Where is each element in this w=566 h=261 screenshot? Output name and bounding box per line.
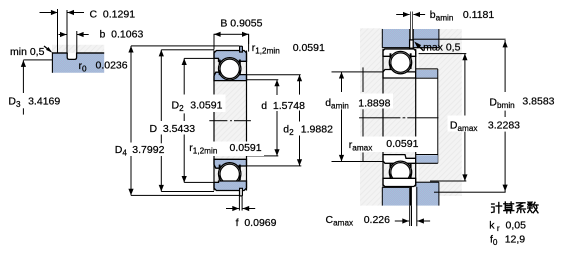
left view outer ring top half: [214, 51, 247, 62]
right view: housing ghost grey column right: [439, 29, 462, 196]
d2 label (white box): [282, 122, 336, 136]
svg-text:0.226: 0.226: [364, 214, 390, 226]
svg-text:3.8583: 3.8583: [522, 95, 554, 107]
d2 dimension line: [247, 74, 301, 75]
housing band top (blue) with snap ring slot: [382, 29, 439, 48]
D_amax label (white box): [448, 116, 522, 132]
C_amax dimension: [409, 186, 412, 205]
svg-text:0.0591: 0.0591: [230, 142, 262, 154]
detail view: housing ghost hatch strip: [52, 45, 104, 53]
D dimension line: [161, 49, 214, 50]
d_amin dimension: [332, 71, 384, 72]
svg-text:3.7992: 3.7992: [132, 144, 164, 156]
right view: grey ghost column at bearing: [383, 49, 416, 187]
left view inner ring bottom half: [214, 159, 247, 168]
right view: housing ghost grey arm top: [419, 54, 439, 69]
svg-text:C 0.1291: C 0.1291: [90, 9, 136, 21]
snap ring slot walls (top): [408, 29, 411, 40]
D3 dimension: ref line at groove bottom level: [23, 59, 52, 60]
housing band bottom right part (blue, raised): [416, 182, 439, 205]
B dimension: [214, 34, 215, 50]
D2 label: [170, 95, 226, 113]
svg-text:3.2283: 3.2283: [488, 120, 520, 132]
svg-text:max 0,5: max 0,5: [423, 41, 461, 53]
b_amin dimension: [409, 12, 412, 40]
dimension C line + arrows: [40, 12, 58, 13]
right view inner ring bottom (white): [383, 155, 416, 164]
left view bearing face edge lines: [213, 51, 214, 191]
svg-text:0.0591: 0.0591: [293, 42, 325, 54]
shaft shoulder block top (blue): [416, 70, 438, 78]
r12min top label: [248, 34, 249, 51]
groove slot walls: [67, 53, 76, 59]
left view ball bottom with raceway and cage: [219, 163, 241, 185]
D2 dimension line: [184, 58, 218, 59]
detail view: outer ring segment with snap ring groove (blue block): [52, 53, 104, 72]
r_amax label (white box): [347, 137, 419, 153]
svg-text:b 0.1063: b 0.1063: [100, 28, 144, 40]
right view: shaft ghost grey strip: [360, 28, 383, 205]
D_bmin dimension: [414, 39, 506, 40]
detail block left edge: [52, 52, 53, 73]
svg-text:0.0236: 0.0236: [96, 59, 128, 71]
svg-text:1.9882: 1.9882: [301, 124, 333, 136]
D4 label: [113, 143, 168, 157]
dimension C: extension lines: [57, 9, 58, 53]
left view: grey ghost column between bearing faces: [214, 51, 247, 191]
calculation factors heading (CJK glyphs drawn as paths): [492, 202, 538, 213]
f dimension: [239, 191, 240, 211]
svg-text:12,9: 12,9: [505, 234, 526, 246]
dimension b: extension line right wall: [76, 31, 77, 53]
svg-text:0.1181: 0.1181: [463, 9, 494, 21]
left view inner ring top half: [214, 72, 247, 80]
D4 dimension line: [131, 45, 240, 46]
d_amin label (white box): [324, 94, 393, 109]
svg-text:0.0591: 0.0591: [386, 138, 418, 150]
snap ring tab in housing (right view top): [410, 40, 414, 48]
dimension b line + arrows: [59, 34, 67, 35]
left view snap ring tab bottom: [240, 188, 243, 196]
D label: [147, 121, 198, 135]
D_bmin label (white box): [488, 93, 558, 109]
right view: housing ghost grey arm bottom: [419, 163, 439, 181]
left view centerline: [209, 120, 227, 121]
left view ball top with raceway and cage: [219, 58, 241, 80]
svg-text:min 0,5: min 0,5: [10, 46, 45, 58]
right view outer ring bottom (white): [383, 178, 416, 186]
svg-text:f 0.0969: f 0.0969: [236, 217, 277, 229]
svg-text:D 3.5433: D 3.5433: [150, 123, 196, 135]
right view inner ring top (white): [383, 70, 416, 79]
svg-text:B 0.9055: B 0.9055: [220, 18, 262, 30]
D_amax dimension: [419, 53, 467, 54]
r12min bottom label (white box): [187, 142, 264, 157]
right view outer ring top (white): [383, 49, 416, 56]
snap ring tab (right view bottom, inside ring): [409, 180, 413, 187]
shaft shoulder block bottom (blue): [416, 155, 438, 163]
left view snap ring tab top: [240, 46, 243, 52]
right view bearing face edge lines: [382, 49, 383, 187]
svg-text:1.8898: 1.8898: [358, 97, 390, 109]
right view ball top with raceway and cage: [389, 51, 411, 73]
shaft shoulder face line: [363, 67, 364, 92]
right view ball bottom with raceway and cage: [389, 161, 411, 183]
svg-text:3.0591: 3.0591: [190, 100, 222, 112]
d dimension line: [247, 79, 279, 80]
svg-text:d 1.5748: d 1.5748: [261, 100, 305, 112]
d label: [259, 95, 307, 111]
left view outer ring bottom half: [214, 181, 247, 191]
svg-text:3.4169: 3.4169: [28, 96, 60, 108]
right view centerline: [359, 117, 400, 118]
svg-text:0,05: 0,05: [506, 220, 527, 232]
housing band bottom left part (blue): [382, 187, 409, 205]
